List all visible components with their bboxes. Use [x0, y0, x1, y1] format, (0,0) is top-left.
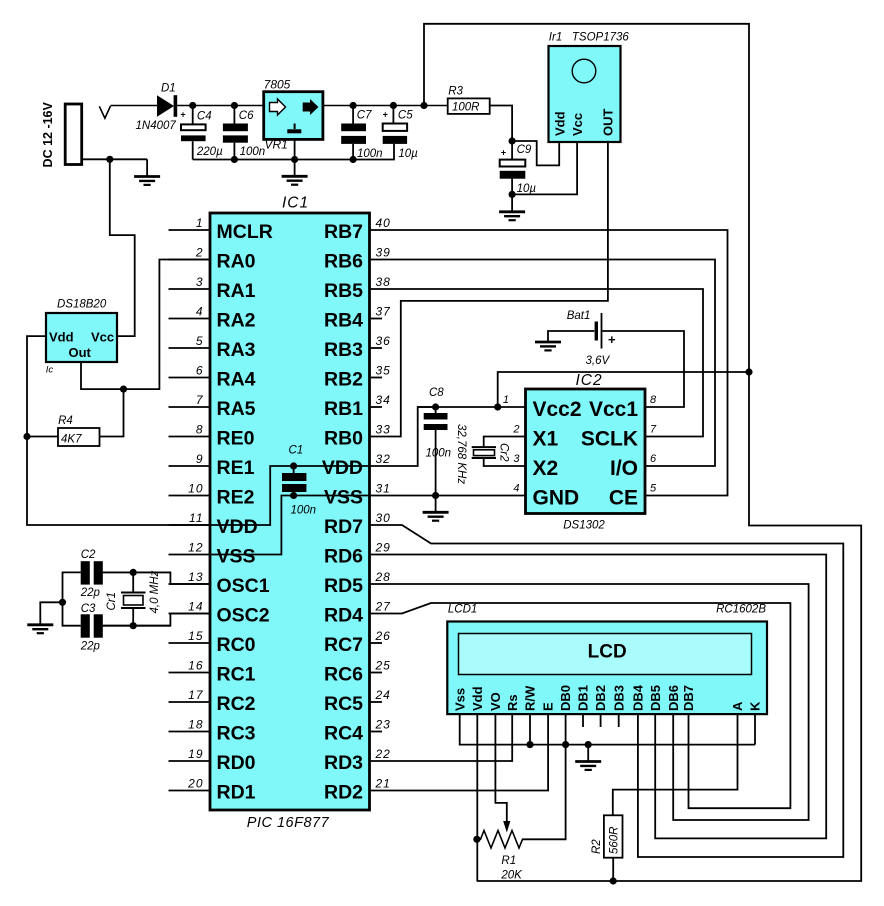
ground at crystal [27, 625, 53, 633]
svg-text:22p: 22p [80, 641, 101, 653]
junction C1 top [290, 462, 297, 469]
svg-text:560R: 560R [609, 827, 621, 855]
svg-text:7: 7 [650, 424, 657, 436]
svg-text:RC3: RC3 [217, 723, 256, 745]
resistor R3 [448, 98, 490, 114]
junction C7 bottom [350, 156, 357, 163]
svg-text:RD6: RD6 [324, 546, 363, 568]
wire OSC1 (pin13) to crystal net [103, 572, 210, 584]
IC1 pin 13 OSC1 stub [169, 583, 211, 585]
svg-text:K: K [748, 701, 763, 711]
wire LCD K to ground bus [754, 714, 756, 745]
svg-text:RD2: RD2 [324, 782, 363, 804]
wire R4 right to Out node [100, 389, 124, 436]
svg-text:R3: R3 [448, 86, 463, 98]
wire battery minus to ground [548, 331, 594, 342]
junction C5 top [390, 102, 397, 109]
wire ground to DS18B20 Vcc [110, 159, 135, 336]
svg-text:10: 10 [188, 481, 203, 495]
junction crystal ground tap [59, 599, 66, 606]
svg-text:R1: R1 [501, 855, 516, 867]
svg-text:R2: R2 [591, 839, 603, 854]
svg-text:Cr2: Cr2 [498, 443, 510, 462]
svg-text:18: 18 [188, 717, 203, 731]
wire +5V to top right corner [424, 24, 749, 372]
junction C9 top [508, 137, 515, 144]
wire LCD VO to R1 wiper [495, 714, 506, 823]
svg-text:9: 9 [196, 452, 204, 466]
wire bus ground stub [587, 745, 589, 762]
svg-text:13: 13 [188, 570, 203, 584]
svg-text:MCLR: MCLR [217, 221, 273, 243]
capacitor C5 (electrolytic 10u) [392, 106, 394, 124]
wire LCD Vss to ground bus [460, 714, 755, 745]
wire R4 left [27, 436, 58, 438]
wire R3 to C9/TSOP Vdd [490, 106, 512, 142]
VR1 internal ground pin symbol [294, 124, 296, 130]
svg-text:19: 19 [188, 747, 203, 761]
svg-text:IC1: IC1 [282, 195, 309, 212]
junction ground tap [106, 156, 113, 163]
svg-text:27: 27 [375, 599, 392, 613]
IC1 pin 20 RD1 stub [169, 790, 211, 792]
wire RB5 (pin38) to SCLK (pin7) [370, 289, 704, 437]
IC1 pin 23 RC4 stub [370, 731, 383, 733]
svg-text:LCD1: LCD1 [448, 604, 477, 616]
wire C2 to Cr1 top [103, 571, 133, 573]
svg-text:4: 4 [196, 304, 204, 318]
svg-text:7805: 7805 [264, 78, 291, 92]
IC1 pin 1 MCLR stub [169, 229, 211, 231]
svg-text:28: 28 [375, 570, 391, 584]
wire RD5 (pin28) to LCD DB6 [370, 584, 809, 820]
wire C8/Vcc2 node [418, 406, 526, 408]
wire RD6 (pin29) to LCD DB5 [370, 555, 827, 839]
svg-text:Bat1: Bat1 [567, 310, 591, 322]
wire to ground (crystal) [40, 602, 62, 625]
IC1 pin 11 VDD stub [169, 524, 211, 526]
svg-text:X2: X2 [533, 457, 559, 480]
svg-text:IC2: IC2 [575, 372, 602, 389]
svg-text:R4: R4 [58, 415, 73, 427]
svg-text:8: 8 [650, 394, 657, 406]
svg-text:Vdd: Vdd [49, 330, 74, 345]
svg-text:11: 11 [189, 511, 203, 525]
wire IC2 Vcc1 (pin8) to battery [602, 331, 685, 407]
junction R2 on +5V rail [610, 877, 617, 884]
svg-text:RB5: RB5 [324, 280, 363, 302]
svg-text:12: 12 [188, 540, 203, 554]
junction C6 bottom [231, 156, 238, 163]
svg-text:E: E [541, 702, 556, 711]
IC1 pin 19 RD0 stub [169, 760, 211, 762]
svg-text:SCLK: SCLK [581, 428, 638, 451]
svg-text:Vdd: Vdd [552, 111, 567, 136]
svg-text:2: 2 [512, 424, 519, 436]
svg-text:4K7: 4K7 [61, 433, 82, 445]
svg-text:C3: C3 [81, 603, 96, 615]
IC1 pin 25 RC6 stub [370, 672, 383, 674]
svg-text:DS18B20: DS18B20 [57, 299, 107, 311]
svg-text:22p: 22p [80, 587, 101, 599]
svg-text:RE0: RE0 [217, 428, 255, 450]
svg-text:Ic: Ic [46, 365, 54, 376]
IC1 pin 8 RE0 stub [169, 436, 211, 438]
svg-text:Vss: Vss [452, 688, 467, 711]
svg-text:C2: C2 [81, 549, 96, 561]
crystal Cr2 [484, 437, 526, 448]
svg-text:RB0: RB0 [324, 428, 363, 450]
wire LCD A to R2 [613, 714, 738, 815]
svg-text:32: 32 [376, 452, 391, 466]
svg-text:C4: C4 [197, 110, 212, 122]
svg-text:32,768 KHz: 32,768 KHz [455, 424, 467, 484]
svg-text:14: 14 [188, 599, 203, 613]
wire LCD R/W to bus [529, 714, 531, 745]
ground at input [134, 177, 160, 185]
svg-text:6: 6 [196, 363, 204, 377]
svg-text:D1: D1 [161, 83, 176, 95]
junction R/W on bus [526, 741, 533, 748]
svg-text:Rs: Rs [505, 694, 520, 711]
svg-text:4,0 MHz: 4,0 MHz [149, 570, 161, 613]
svg-text:RC1602B: RC1602B [716, 604, 766, 616]
diode D1 [157, 95, 174, 117]
svg-text:RD7: RD7 [324, 516, 363, 538]
resistor R4 [58, 428, 100, 446]
svg-text:RA2: RA2 [217, 310, 256, 332]
svg-text:25: 25 [375, 658, 391, 672]
junction C1 bottom [290, 492, 297, 499]
op IC1 box [210, 213, 370, 810]
svg-text:4: 4 [513, 483, 519, 495]
svg-text:35: 35 [376, 363, 391, 377]
svg-text:Vcc: Vcc [91, 330, 114, 345]
svg-text:RC2: RC2 [217, 693, 256, 715]
junction C7 top [350, 102, 357, 109]
svg-text:A: A [730, 701, 745, 711]
IC1 pin 7 RA5 stub [169, 406, 211, 408]
svg-text:31: 31 [376, 481, 391, 495]
svg-text:5: 5 [650, 483, 657, 495]
wire DS18B20 Vdd to VDD rail and IC1 pin 11 [27, 336, 210, 525]
ground at battery [535, 342, 561, 350]
svg-text:DB0: DB0 [558, 685, 573, 711]
capacitor C4 (electrolytic 220u) [192, 106, 194, 125]
IC1 pin 14 OSC2 stub [169, 613, 211, 615]
wire connector minus to ground [82, 158, 147, 160]
svg-text:C6: C6 [239, 110, 254, 122]
svg-text:3: 3 [513, 453, 520, 465]
svg-text:RE2: RE2 [217, 487, 255, 509]
svg-text:LCD: LCD [588, 642, 627, 663]
IC1 pin 24 RC5 stub [370, 701, 383, 703]
junction C8 bottom/gnd [432, 492, 439, 499]
junction Out/R4/RA0 [120, 386, 127, 393]
IR receiver Ir1 TSOP1736 [549, 46, 621, 142]
svg-text:+: + [383, 110, 388, 120]
svg-text:17: 17 [188, 688, 204, 702]
svg-text:6: 6 [650, 453, 657, 465]
svg-text:C7: C7 [357, 110, 372, 122]
wire C9 bottom to TSOP Vcc pin [512, 142, 577, 194]
svg-text:RB7: RB7 [324, 221, 363, 243]
svg-text:RC5: RC5 [324, 693, 363, 715]
svg-text:24: 24 [375, 688, 391, 702]
svg-text:23: 23 [375, 717, 391, 731]
IC1 pin 16 RC1 stub [169, 672, 211, 674]
display LCD1 box [447, 622, 767, 715]
svg-text:C1: C1 [289, 444, 304, 456]
svg-text:DB2: DB2 [593, 685, 608, 711]
svg-text:30: 30 [376, 511, 391, 525]
R1 wiper arrow [503, 821, 510, 833]
wire plug to D1 anode [111, 105, 158, 107]
svg-text:RD5: RD5 [324, 575, 363, 597]
svg-text:Out: Out [69, 345, 92, 360]
svg-text:RD4: RD4 [324, 605, 363, 627]
svg-text:2: 2 [195, 245, 204, 259]
svg-text:22: 22 [375, 747, 391, 761]
svg-text:PIC 16F877: PIC 16F877 [247, 815, 330, 831]
VR1 ground pin wire [294, 139, 296, 176]
svg-text:DB3: DB3 [611, 685, 626, 711]
svg-text:RC6: RC6 [324, 664, 363, 686]
capacitor C9 (electrolytic 10u) [511, 141, 513, 160]
IC1 pin 15 RC0 stub [169, 642, 211, 644]
svg-text:RB1: RB1 [324, 398, 363, 420]
VR1 input arrow [270, 99, 286, 115]
wire RD7 (pin30) to LCD DB4 [370, 525, 844, 857]
IC1 pin 35 RB2 stub [370, 377, 383, 379]
sensor DS18B20 [46, 313, 117, 362]
wire ground rail under C4 C6 VR1 C7 C5 [193, 144, 394, 160]
svg-text:1: 1 [196, 216, 204, 230]
IC1 pin 5 RA3 stub [169, 347, 211, 349]
IC1 pin 4 RA2 stub [169, 318, 211, 320]
svg-text:100n: 100n [240, 146, 266, 158]
svg-text:RA1: RA1 [217, 280, 256, 302]
svg-text:38: 38 [376, 275, 391, 289]
IC1 pin 6 RA4 stub [169, 377, 211, 379]
svg-text:R/W: R/W [523, 685, 538, 711]
wire C2 left to C3 left [63, 572, 81, 625]
wire RD4 (pin27) to LCD DB7 [370, 603, 791, 808]
svg-text:100n: 100n [426, 448, 452, 460]
junction C6 top [231, 102, 238, 109]
svg-text:7: 7 [196, 393, 204, 407]
svg-text:34: 34 [376, 393, 391, 407]
wire C3 to Cr1 bottom [103, 625, 133, 627]
svg-text:VO: VO [488, 692, 503, 711]
svg-text:36: 36 [376, 334, 391, 348]
ground at LCD bus [575, 762, 601, 770]
svg-text:Vcc2: Vcc2 [533, 398, 582, 421]
plug symbol [99, 106, 110, 118]
wire C9 top to TSOP Vdd pin [512, 141, 559, 165]
junction R4 left [23, 433, 30, 440]
ground at VR1 [282, 176, 308, 184]
svg-text:100n: 100n [357, 148, 383, 160]
svg-text:1: 1 [503, 394, 509, 406]
VR1 output arrow [303, 99, 319, 115]
wire VR1 out to R3 [323, 105, 448, 107]
IC1 pin 18 RC3 stub [169, 731, 211, 733]
svg-text:37: 37 [376, 304, 392, 318]
svg-text:TSOP1736: TSOP1736 [572, 32, 629, 44]
wire C9 bottom to ground [511, 194, 513, 211]
junction DB0 on bus [562, 741, 569, 748]
svg-text:40: 40 [376, 216, 391, 230]
wire RA0 (pin2) to Out node [124, 260, 211, 390]
svg-text:20K: 20K [500, 870, 523, 882]
svg-text:1N4007: 1N4007 [136, 120, 177, 132]
svg-text:100R: 100R [452, 102, 480, 114]
svg-text:220µ: 220µ [196, 146, 223, 158]
svg-text:RC0: RC0 [217, 634, 256, 656]
junction C4 top [189, 102, 196, 109]
IC1 pin 10 RE2 stub [169, 495, 211, 497]
wire TSOP OUT to RB0 (pin33) [370, 142, 608, 437]
svg-text:RB4: RB4 [324, 310, 363, 332]
svg-text:RC1: RC1 [217, 664, 256, 686]
capacitor C6 (100n) [233, 106, 235, 124]
svg-text:C5: C5 [398, 110, 413, 122]
battery Bat1 [595, 322, 598, 341]
wire RB7 (pin40) to CE (pin5) [370, 230, 728, 496]
connector J1 DC input [65, 104, 82, 165]
svg-text:RA4: RA4 [217, 369, 256, 391]
svg-text:DB6: DB6 [666, 685, 681, 711]
svg-text:VR1: VR1 [265, 138, 288, 152]
svg-text:DS1302: DS1302 [563, 520, 605, 532]
junction R1 left [473, 836, 480, 843]
svg-text:RC7: RC7 [324, 634, 363, 656]
IC1 pin 34 RB1 stub [370, 406, 383, 408]
svg-text:Ir1: Ir1 [549, 32, 562, 44]
crystal Cr1 [132, 572, 134, 592]
svg-text:21: 21 [375, 776, 391, 790]
wire D1 cathode to VR1 input, nodes C4 C6 [177, 105, 264, 107]
svg-text:100n: 100n [291, 505, 317, 517]
svg-text:10µ: 10µ [517, 183, 537, 195]
IC1 pin 36 RB3 stub [370, 347, 383, 349]
svg-text:10µ: 10µ [398, 148, 418, 160]
capacitor C7 (100n) [352, 106, 354, 124]
svg-text:15: 15 [188, 629, 203, 643]
ground at C9 [499, 212, 525, 220]
IC1 pin 9 RE1 stub [169, 465, 211, 467]
svg-text:+: + [180, 109, 185, 119]
svg-text:DB5: DB5 [648, 685, 663, 711]
svg-text:3,6V: 3,6V [586, 355, 611, 367]
svg-text:DB4: DB4 [631, 684, 646, 711]
IC1 pin 37 RB4 stub [370, 318, 383, 320]
junction VR1 gnd [291, 156, 298, 163]
svg-text:GND: GND [533, 487, 580, 510]
svg-text:C8: C8 [429, 387, 444, 399]
wire RD3 (pin22) to LCD Rs [370, 714, 513, 761]
svg-text:3: 3 [196, 275, 204, 289]
junction C8 top [432, 403, 439, 410]
svg-text:RD0: RD0 [217, 752, 256, 774]
potentiometer R1 zigzag [477, 831, 523, 849]
wire IC1 pin11 VDD to C1 and pin32 VDD [210, 407, 436, 525]
svg-text:16: 16 [188, 658, 203, 672]
wire DS18B20 Out down to node [81, 362, 124, 389]
svg-text:RD1: RD1 [217, 782, 256, 804]
svg-text:Vcc: Vcc [570, 113, 585, 136]
svg-text:CE: CE [609, 487, 638, 510]
svg-text:RB2: RB2 [324, 369, 363, 391]
svg-text:OSC2: OSC2 [217, 605, 270, 627]
wire RB6 (pin39) to I/O (pin6) [370, 260, 716, 467]
svg-text:+: + [608, 332, 616, 347]
wire LCD DB0 down to R1 right [522, 714, 566, 839]
wire +5V right edge down to bottom rail [477, 372, 862, 881]
IC1 pin 17 RC2 stub [169, 701, 211, 703]
svg-text:VSS: VSS [324, 487, 363, 509]
junction Cr1 top [130, 569, 137, 576]
svg-text:RD3: RD3 [324, 752, 363, 774]
junction bus ground tap [585, 741, 592, 748]
svg-text:RC4: RC4 [324, 723, 363, 745]
capacitor C8 (100n) [435, 407, 437, 413]
svg-text:I/O: I/O [610, 457, 638, 480]
rtc IC2 box [526, 389, 646, 514]
svg-text:VDD: VDD [322, 457, 363, 479]
svg-text:RA5: RA5 [217, 398, 256, 420]
TSOP lens circle [572, 59, 596, 83]
svg-text:Vdd: Vdd [470, 686, 485, 711]
svg-text:20: 20 [187, 776, 203, 790]
svg-text:RA3: RA3 [217, 339, 256, 361]
svg-text:OSC1: OSC1 [217, 575, 270, 597]
capacitor C2 (22p) [81, 561, 90, 584]
ground at C8 [423, 512, 449, 520]
svg-text:X1: X1 [533, 428, 559, 451]
IC1 pin 12 VSS stub [169, 554, 211, 556]
svg-text:DB7: DB7 [681, 685, 696, 711]
svg-text:C9: C9 [517, 144, 532, 156]
IC1 pin 26 RC7 stub [370, 642, 383, 644]
regulator VR1 7805 [264, 92, 323, 140]
wire +5V down to Vcc2 [498, 372, 749, 407]
resistor R2 [604, 815, 623, 857]
wire R2 bottom to +5V rail [612, 858, 614, 881]
wire RD2 (pin21) to LCD E [370, 714, 549, 790]
svg-text:Vcc1: Vcc1 [589, 398, 638, 421]
svg-text:29: 29 [375, 540, 391, 554]
svg-text:5: 5 [196, 334, 204, 348]
svg-text:RA0: RA0 [217, 251, 256, 273]
wire IC1 VSS (pin31) to IC2 GND (pin4) [370, 495, 526, 497]
IC1 pin 3 RA1 stub [169, 288, 211, 290]
svg-text:26: 26 [375, 629, 391, 643]
svg-text:33: 33 [376, 422, 391, 436]
junction +5V tap [420, 102, 427, 109]
LCD pin stubs DB1 DB2 DB3 [582, 714, 584, 727]
svg-text:8: 8 [196, 422, 204, 436]
svg-text:Cr1: Cr1 [106, 592, 118, 611]
IC1 pin 2 RA0 stub [169, 259, 211, 261]
svg-text:RB6: RB6 [324, 251, 363, 273]
svg-text:OUT: OUT [601, 109, 616, 137]
svg-text:RB3: RB3 [324, 339, 363, 361]
svg-text:DC 12 -16V: DC 12 -16V [41, 101, 55, 167]
svg-text:DB1: DB1 [576, 685, 591, 711]
LCD display window [459, 634, 752, 675]
